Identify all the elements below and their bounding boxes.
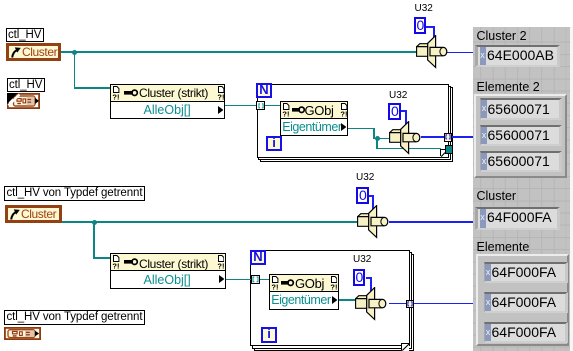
array element 3 bbox=[480, 151, 562, 173]
U32 label top bbox=[415, 3, 433, 14]
front panel window bbox=[473, 27, 570, 351]
typecast loop1 bbox=[389, 121, 421, 155]
typecast loop2 bbox=[355, 287, 387, 321]
const 0 #4 bbox=[353, 269, 366, 286]
GObj property node 2 bbox=[269, 274, 339, 292]
const 0 #3 bbox=[356, 187, 369, 204]
wire: const1 elbow bbox=[425, 26, 435, 28]
wire: AlleObj out to loop1 tunnel bbox=[225, 105, 257, 106]
typedef cluster icon 2 bbox=[4, 327, 41, 340]
wire: Eigentuemer2 out to typecast bbox=[339, 299, 356, 300]
wire: elbow down bbox=[373, 128, 374, 139]
wire: into property node 1 bbox=[74, 87, 110, 88]
wire: const2 elbow bbox=[401, 110, 407, 112]
tunnel loop1 right [] bbox=[444, 133, 453, 142]
wire: loop1 tunnel out to panel bbox=[452, 136, 473, 138]
for-loop 1 stacked frame 2 bbox=[258, 86, 451, 161]
label Cluster bbox=[477, 189, 517, 203]
for-loop 2 stacked frame 2 bbox=[252, 252, 412, 349]
label ctl_HV (top control) bbox=[6, 28, 44, 43]
wire: into property node 2 bbox=[93, 257, 110, 258]
label Elemente 2 bbox=[477, 80, 540, 94]
i terminal loop1 bbox=[266, 136, 282, 151]
svg-text:?!: ?! bbox=[340, 110, 347, 117]
for-loop 1 frame bbox=[257, 84, 449, 158]
tunnel loop1 left [] bbox=[256, 101, 264, 110]
wire: typecast loop2 out to tunnel bbox=[389, 303, 407, 305]
label ctl_HV von Typdef getrennt (bottom icon) bbox=[4, 310, 145, 325]
wire: const4 elbow bbox=[366, 277, 372, 279]
svg-text:?!: ?! bbox=[217, 262, 224, 269]
typecast 2 (mid) bbox=[357, 205, 389, 239]
array element 1 bbox=[480, 98, 562, 120]
property node 2 body bbox=[110, 271, 226, 289]
node: junction dot loop1 bbox=[375, 136, 380, 141]
GObj property node 1 bbox=[280, 101, 348, 119]
tunnel loop2 right [] bbox=[406, 300, 415, 309]
wire: typecast2 out blue bbox=[389, 221, 474, 223]
i terminal loop2 bbox=[261, 327, 277, 342]
fold loop2 bbox=[401, 343, 409, 351]
U32 label loop1 bbox=[389, 90, 407, 101]
wire: to typecast loop1 bbox=[373, 138, 389, 139]
array Elemente 2 bbox=[474, 94, 567, 178]
wire: branch down to property node 2 bbox=[93, 222, 94, 259]
property node 1 header content bbox=[112, 86, 224, 100]
svg-text:?!: ?! bbox=[112, 262, 119, 269]
wire: loop1 tunnel to GObj node bbox=[264, 105, 280, 106]
indicator Cluster 2 value bbox=[475, 45, 560, 68]
svg-text:?!: ?! bbox=[330, 282, 337, 289]
wire: cluster1 to typecast1 (teal, y=52) bbox=[61, 51, 417, 52]
tunnel loop1 teal square bbox=[445, 145, 453, 153]
cluster control 1 bbox=[6, 43, 61, 61]
tunnel loop2 left [] bbox=[251, 275, 261, 284]
label ctl_HV von Typdef getrennt (control 2) bbox=[4, 186, 145, 201]
label Cluster 2 bbox=[477, 29, 527, 43]
fold loop1 bbox=[440, 149, 446, 156]
array element 2 bbox=[484, 292, 569, 314]
svg-text:?!: ?! bbox=[271, 282, 278, 289]
array element 2 bbox=[480, 125, 562, 147]
property node 1 body: AlleObj[] bbox=[110, 102, 225, 120]
for-loop 2 frame bbox=[250, 250, 410, 346]
wire: const3 elbow bbox=[368, 195, 374, 197]
N terminal loop2 bbox=[250, 250, 266, 265]
node: junction dot 1 bbox=[72, 50, 77, 55]
indicator Cluster value bbox=[475, 207, 560, 230]
cluster control 2 bbox=[5, 205, 62, 223]
svg-text:?!: ?! bbox=[112, 93, 119, 100]
wire: loop2 tunnel out to panel bbox=[414, 303, 473, 305]
const 0 #2 bbox=[388, 103, 401, 120]
array element 1 bbox=[484, 262, 569, 284]
svg-text:?!: ?! bbox=[282, 110, 289, 117]
for-loop 1 stacked frame 3 bbox=[260, 87, 453, 162]
wire: Eigentuemer out bbox=[348, 128, 375, 129]
wire: along loop1 bottom to teal tunnel bbox=[376, 148, 441, 149]
U32 label loop2 bbox=[353, 254, 371, 265]
wire: branch down to property node 1 bbox=[74, 52, 75, 89]
typedef cluster icon 1 bbox=[7, 93, 40, 109]
svg-text:?!: ?! bbox=[217, 93, 224, 100]
wire: typecast loop1 out to tunnel bbox=[421, 136, 444, 138]
array element 3 bbox=[484, 322, 569, 344]
label Elemente bbox=[477, 240, 530, 254]
wire: loop2 tunnel to GObj2 bbox=[260, 279, 270, 280]
wire: AlleObj2 out to loop2 tunnel bbox=[226, 279, 251, 280]
array Elemente bbox=[476, 254, 569, 346]
wire: typecast1 out blue bbox=[447, 52, 473, 54]
const 0 #1 bbox=[414, 17, 427, 34]
wire: branch down inside loop1 bbox=[376, 139, 377, 149]
property node 1 header: Cluster (strikt) bbox=[110, 84, 225, 102]
typecast 1 (top) bbox=[416, 35, 448, 69]
node: junction dot 2 bbox=[92, 220, 97, 225]
label ctl_HV (typedef constant) bbox=[7, 78, 45, 93]
N terminal loop1 bbox=[256, 83, 272, 98]
wire: cluster2 to typecast2 (teal, y=222) bbox=[62, 221, 357, 222]
property node 2 header bbox=[110, 253, 226, 271]
for-loop 2 stacked frame 3 bbox=[254, 254, 415, 351]
U32 label typecast2 bbox=[356, 172, 374, 183]
